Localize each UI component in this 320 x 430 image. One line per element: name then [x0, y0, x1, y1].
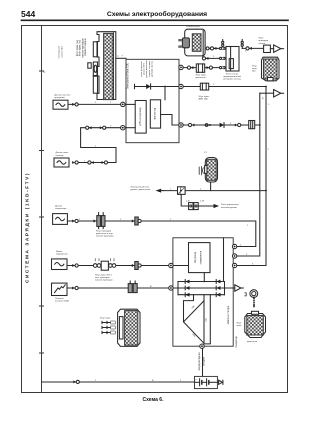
noise filter Z4 [52, 259, 68, 270]
op-amp U1 ECU box [126, 59, 179, 142]
diode VD2 on wire 125 [220, 123, 224, 128]
inline connector pair row4 [94, 213, 106, 229]
wire L2 B line [173, 287, 235, 289]
divider tick marks [40, 71, 44, 353]
svg-text:Жгут пров.: Жгут пров. [100, 318, 111, 320]
wire X1-ECU pin labels [117, 55, 124, 57]
connector X1 middle latch [93, 62, 97, 76]
connector X1 latch slot [94, 65, 97, 72]
diode VD5 [185, 293, 189, 297]
X2 output pin [206, 47, 209, 50]
svg-text:C1: C1 [204, 152, 208, 154]
wire into relay pin2 [203, 56, 220, 59]
inline connector row5 b [132, 262, 141, 270]
svg-text:1-W: 1-W [200, 201, 205, 203]
connector X4 side notch [205, 166, 207, 174]
svg-text:управл. двигателем: управл. двигателем [130, 189, 151, 191]
left strip divider [41, 26, 43, 393]
svg-text:Генератор: Генератор [235, 336, 238, 348]
connector X5 pigtail leads [102, 321, 115, 334]
stud wire tick [245, 293, 246, 296]
arrow A1 to engine ECU [156, 189, 164, 193]
connector pair row2 b [100, 126, 106, 129]
battery cable vertical label [198, 352, 205, 371]
svg-text:транзистор: транзистор [154, 107, 157, 120]
regulator block [189, 243, 211, 273]
svg-text:реле форсунок: реле форсунок [140, 61, 143, 76]
svg-text:подавитель: подавитель [56, 253, 69, 255]
connector X6 top tab [252, 311, 259, 314]
stator phase lead 3 [204, 295, 210, 344]
connector X2 left wing [182, 38, 189, 48]
inline connector row6 [128, 281, 137, 293]
noise filter Z1 [53, 100, 68, 109]
arrow T1 to battery plus [270, 45, 283, 53]
svg-text:предохранителей: предохранителей [223, 75, 242, 78]
ring connector row1 [72, 103, 78, 106]
connector X4 housing [205, 158, 217, 183]
svg-text:(левая сторона): (левая сторона) [84, 38, 87, 56]
arrow T3 B output [235, 285, 244, 291]
wire ECU pin row2 [125, 127, 135, 129]
noise filter Z2 [54, 158, 69, 167]
noise filter Z4 label [56, 251, 69, 256]
connector X5 side bar [119, 317, 123, 339]
ECU bus start tick [134, 84, 136, 88]
stator phase lead 1 [184, 295, 194, 322]
ring connector row6 [72, 286, 78, 289]
svg-text:Электронный блок: Электронный блок [130, 186, 149, 189]
wire number labels bottom [95, 380, 182, 382]
svg-text:панели приборов: панели приборов [96, 236, 114, 238]
fuse F1 [196, 64, 204, 72]
wire vertical bus V266 [237, 87, 266, 266]
fuse F3 box [178, 187, 186, 195]
wire fan relay branch [181, 194, 213, 206]
connector pair row2 a [86, 126, 92, 129]
fuse F2 label [199, 96, 210, 101]
battery GB1 case [195, 376, 218, 388]
svg-text:охлажд.: охлажд. [56, 155, 65, 157]
node fan junction [265, 190, 267, 192]
svg-text:вентиляторами: вентиляторами [221, 207, 237, 209]
relay K1 label [223, 73, 242, 80]
wire X1 to ECU [116, 57, 126, 59]
ECU reference label [130, 186, 151, 192]
wire ECU P5 line [183, 124, 260, 126]
noise filter box on wire 125 [249, 121, 255, 129]
connector X5 pin grid [125, 311, 138, 346]
svg-text:салона №1: салона №1 [60, 46, 63, 58]
svg-text:капота: капота [259, 43, 267, 45]
svg-text:обмотка статора: обмотка статора [227, 305, 230, 324]
ring connector row4 [72, 219, 78, 222]
ring connector row3 [72, 161, 78, 164]
diode VD1 cathode bar [150, 84, 152, 89]
svg-text:обм: обм [191, 305, 195, 310]
battery GB1 plates [196, 379, 217, 386]
connector X1 housing [97, 32, 116, 100]
wire stub to arrow T2 [260, 92, 274, 94]
svg-text:Схемы электрооборудования: Схемы электрооборудования [107, 10, 207, 18]
wire vertical bus V260 [237, 93, 260, 256]
svg-text:1: 1 [122, 55, 124, 57]
connector pair on relay output [246, 47, 252, 50]
connector X1 upper lock tab [93, 42, 97, 57]
svg-text:пров.: пров. [237, 325, 243, 327]
wire number labels rows [84, 56, 270, 288]
connector X1 id label [88, 63, 91, 68]
alternator left pin L1 [169, 263, 173, 267]
wire fan feed [164, 190, 266, 192]
diode VD4 [185, 286, 189, 290]
rectifier right bus [224, 282, 226, 295]
ring connector row5 [72, 264, 78, 267]
splice S1 on wire 125 [205, 124, 211, 127]
connector X4 pigtail marks [199, 167, 203, 175]
connector X6 pin grid [247, 316, 263, 336]
diode VD1 [146, 84, 150, 89]
inline connector row4 b [132, 217, 141, 225]
connector X3 labels [252, 66, 258, 73]
connector row5 label [95, 273, 113, 281]
connector pair on wire 67b [207, 66, 213, 69]
wire bottom ground run [42, 381, 195, 383]
alternator right pin R3 [232, 263, 236, 267]
wire ECU to relay pin3 [183, 67, 219, 69]
wire J1 to regulator block [164, 87, 166, 100]
wire ECU P4 feed [183, 86, 266, 88]
battery terminal stud [250, 290, 258, 307]
diode VD8 [216, 293, 220, 297]
connector pair on wire 58 [202, 57, 208, 60]
alternator left pin L2 [169, 286, 173, 290]
ECU sub-block A voltage monitor [135, 101, 146, 134]
connector X4 stem [210, 183, 212, 191]
svg-text:B: B [262, 98, 264, 100]
connector X1 harness labels [59, 45, 64, 59]
svg-text:1: 1 [213, 84, 215, 86]
fan relay label [221, 204, 239, 209]
rectifier rail 1 [178, 281, 225, 283]
connector X1 lower lock tab [93, 76, 97, 93]
svg-text:1-B: 1-B [186, 201, 190, 203]
svg-text:двигателя: двигателя [196, 77, 207, 79]
wire alternator to battery [202, 348, 204, 376]
connector X2 pin grid [192, 34, 201, 52]
svg-text:Аккумуляторная: Аккумуляторная [198, 352, 201, 371]
ECU right pin P5 [179, 123, 183, 127]
connector X4 pin grid [207, 159, 217, 180]
wire number labels row4 [79, 219, 249, 227]
diode VD7 [216, 286, 220, 290]
node J1 junction [164, 86, 166, 88]
svg-text:Жгут пров. №2 и: Жгут пров. №2 и [95, 273, 113, 276]
fuse F2 [200, 83, 208, 90]
wire row1 [68, 103, 121, 105]
junction box J2 [264, 45, 271, 52]
rectifier left bus [177, 282, 179, 295]
connector X5 label [100, 318, 111, 320]
ECU left pin P2 [121, 126, 125, 130]
connector pair on wire 48 [210, 47, 216, 50]
svg-text:544: 544 [21, 9, 35, 19]
wire regulator to bridge [203, 273, 205, 282]
rectifier rail 3 [178, 294, 225, 296]
battery ground arrow [217, 380, 223, 384]
relay K1 top pin stack left [222, 40, 224, 47]
inline connector fan branch [189, 203, 199, 210]
svg-text:Разъём жгута: Разъём жгута [186, 26, 201, 28]
svg-text:2: 2 [245, 51, 247, 53]
ECU left pin P1 [121, 102, 125, 106]
ECU right pin P4 [179, 84, 183, 88]
wire field terminal drop [223, 238, 225, 282]
wire ECU internal bus [135, 86, 180, 88]
noise filter Z3 [53, 214, 68, 225]
relay K1 top pin stack right [241, 40, 243, 49]
svg-text:СИСТЕМА ЗАРЯДКИ (1KD-FTV): СИСТЕМА ЗАРЯДКИ (1KD-FTV) [25, 172, 30, 283]
connector X1 pin name labels [76, 38, 87, 58]
connector X3 bottom notch [268, 78, 274, 81]
svg-text:обм: обм [206, 318, 208, 322]
svg-text:1: 1 [247, 225, 249, 227]
connector X6 labels [237, 323, 258, 344]
connector X2 housing [185, 29, 205, 56]
svg-text:Электронный блок EDU: Электронный блок EDU [127, 63, 130, 90]
svg-text:5: 5 [117, 55, 119, 57]
svg-text:батарея: батарея [203, 356, 206, 366]
diode VD6 [216, 280, 220, 284]
connector row4 label [96, 230, 114, 237]
wire row2 with zigzag link [77, 128, 121, 163]
svg-text:1: 1 [268, 104, 270, 106]
connector pair row3 b [102, 161, 108, 164]
inline connector pair row5 [93, 259, 115, 271]
fusible link FL1 label [55, 298, 69, 303]
stator delta winding [184, 301, 205, 344]
svg-text:напряжения: напряжения [199, 250, 202, 264]
node bridge junctions [177, 281, 225, 289]
wire ECU pin row1 [125, 103, 135, 105]
stator phase lead 2 [203, 295, 205, 301]
pin labels right [240, 245, 254, 266]
svg-text:Регулятор: Регулятор [194, 251, 197, 263]
node V260 junction [259, 124, 261, 126]
alternator right pin R2 [232, 254, 236, 258]
connector X6 housing [245, 314, 266, 338]
connector X3 pin grid [264, 59, 278, 79]
junction box J2 label [259, 38, 269, 45]
relay K1 contact box [229, 59, 233, 69]
connector X1 pin grid [104, 33, 113, 99]
noise filter Z2 label [56, 152, 69, 157]
svg-text:ЦПУ контроллер: ЦПУ контроллер [139, 107, 142, 126]
connector pair on wire 67 [187, 66, 193, 69]
fusible link FL1 [52, 283, 68, 295]
svg-text:вставка 100A: вставка 100A [55, 300, 69, 303]
header rule [22, 19, 289, 21]
connector pair on wire 125a [188, 123, 194, 126]
relay K1 left pin b [220, 57, 226, 59]
wire X2 to relay pin1 [207, 47, 220, 49]
ECU internal note text [140, 60, 153, 78]
noise filter Z1 label [55, 94, 71, 99]
svg-text:вращения: вращения [55, 97, 66, 99]
alternator right pin R1 [232, 244, 236, 248]
wire L1 into regulator [173, 265, 188, 267]
ECU right pin P3 [179, 65, 183, 69]
noise filter Z3 label [55, 206, 67, 211]
connector pair row3 a [88, 161, 94, 164]
fuse F1 label [196, 75, 207, 80]
svg-text:C: C [44, 70, 46, 74]
node V266 top junction [265, 86, 267, 88]
node fan branch [180, 190, 182, 192]
svg-text:генератора: генератора [55, 208, 67, 210]
svg-text:моторного отсека: моторного отсека [223, 79, 242, 81]
wire row6 [67, 287, 169, 289]
alternator G1 body [173, 238, 233, 346]
svg-text:№2: №2 [252, 70, 256, 73]
connector X2 pin bar a [178, 39, 182, 41]
wire number labels right top [213, 51, 270, 125]
svg-text:1: 1 [268, 149, 270, 151]
svg-text:AM2 15A: AM2 15A [199, 97, 209, 100]
ring connector bottom [73, 380, 79, 383]
wire labels fan [170, 189, 205, 203]
svg-text:двигателя: двигателя [247, 341, 258, 343]
relay K1 body [226, 47, 239, 72]
connector X5 housing [118, 309, 140, 346]
svg-text:Схема 6.: Схема 6. [143, 397, 165, 403]
relay K1 left pin c [220, 67, 226, 69]
ECU sub-block B driver [150, 100, 160, 128]
arrow T2 to starter [274, 90, 284, 98]
wire row4 [67, 221, 255, 247]
wire block B to right pin [161, 115, 179, 126]
diode VD3 [185, 280, 189, 284]
arrow A2 to fan relay [214, 204, 220, 208]
connector pair on wire 125b [235, 123, 241, 126]
alternator bottom pin [200, 344, 204, 348]
diagram frame [22, 26, 288, 393]
connector X2 pin bar b [178, 45, 182, 47]
svg-text:панели приборов: панели приборов [95, 280, 113, 282]
connector X2 right wall [202, 31, 204, 55]
connector X3 housing [262, 57, 280, 81]
svg-text:датчики систем: датчики систем [151, 61, 153, 77]
wire row5 [67, 265, 169, 267]
relay K1 left pin a [220, 47, 226, 49]
svg-text:к блоку реле: к блоку реле [59, 45, 61, 59]
connector X1 grid inner rail [113, 33, 115, 100]
relay K1 coil dashed [230, 47, 232, 72]
wire relay output [242, 47, 263, 49]
regulator vertical label [194, 250, 202, 264]
